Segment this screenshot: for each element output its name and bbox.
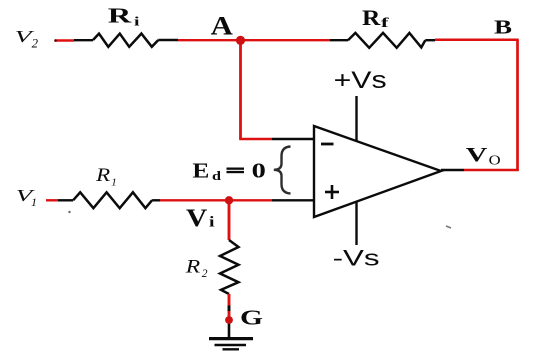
svg-text:R: R <box>362 5 381 30</box>
svg-text:0: 0 <box>252 158 266 182</box>
svg-text:1: 1 <box>111 176 117 188</box>
svg-text:V: V <box>466 144 488 166</box>
svg-text:f: f <box>381 16 389 31</box>
svg-text:2: 2 <box>32 36 38 50</box>
svg-text:i: i <box>209 215 215 231</box>
svg-text:V: V <box>186 205 207 232</box>
svg-text:-Vs: -Vs <box>333 246 380 271</box>
svg-text:1: 1 <box>31 195 37 209</box>
svg-text:R: R <box>95 165 111 186</box>
svg-text:E: E <box>192 159 209 183</box>
svg-text:i: i <box>134 14 140 29</box>
svg-text:R: R <box>108 4 133 28</box>
svg-text:A: A <box>211 11 233 40</box>
svg-text:+Vs: +Vs <box>334 67 387 94</box>
svg-text:R: R <box>185 257 201 278</box>
svg-text:G: G <box>240 305 263 329</box>
svg-text:O: O <box>489 153 501 168</box>
svg-text:2: 2 <box>202 268 208 280</box>
svg-text:B: B <box>494 17 512 39</box>
svg-text:d: d <box>212 168 222 183</box>
